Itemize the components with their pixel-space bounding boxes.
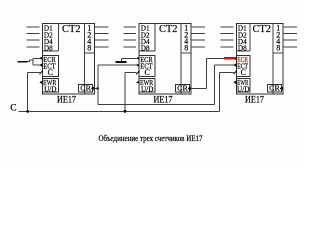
- svg-text:D8: D8: [141, 43, 150, 52]
- svg-text:CT2: CT2: [252, 23, 271, 35]
- svg-text:D8: D8: [238, 43, 247, 52]
- svg-text:CT2: CT2: [159, 23, 178, 35]
- svg-text:C: C: [145, 68, 150, 77]
- svg-text:CR: CR: [177, 83, 189, 92]
- svg-text:U/D: U/D: [44, 85, 56, 93]
- svg-text:8: 8: [87, 43, 91, 52]
- svg-text:8: 8: [184, 43, 188, 52]
- svg-text:CR: CR: [80, 83, 92, 92]
- svg-text:C: C: [10, 104, 16, 114]
- svg-text:D8: D8: [44, 43, 53, 52]
- svg-text:ИЕ17: ИЕ17: [245, 94, 264, 104]
- svg-text:CT2: CT2: [62, 23, 81, 35]
- svg-text:C: C: [241, 68, 246, 77]
- svg-text:C: C: [48, 68, 53, 77]
- svg-text:U/D: U/D: [141, 85, 153, 93]
- svg-text:CR: CR: [269, 83, 281, 92]
- svg-text:ИЕ17: ИЕ17: [57, 94, 76, 104]
- svg-text:Объединение трех счетчиков ИЕ1: Объединение трех счетчиков ИЕ17: [99, 134, 203, 143]
- svg-text:U/D: U/D: [237, 85, 249, 93]
- svg-text:8: 8: [276, 43, 280, 52]
- svg-text:ИЕ17: ИЕ17: [154, 94, 173, 104]
